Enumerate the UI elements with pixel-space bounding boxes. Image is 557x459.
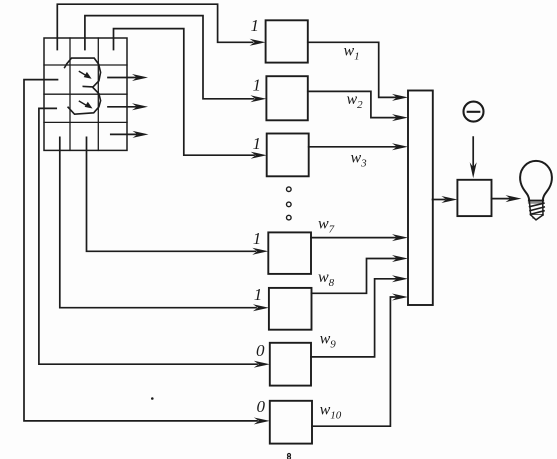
arrow into summer 7 <box>392 294 408 301</box>
wire S4 to summer <box>311 237 396 239</box>
svg-text:w1: w1 <box>344 42 360 62</box>
arrow into lamp <box>506 195 522 202</box>
arrow into summer 3 <box>392 143 408 150</box>
wire from cell A2 to box S2 <box>85 16 254 99</box>
association box S7 <box>270 401 312 444</box>
wire threshold box to lamp <box>492 198 510 200</box>
arrow into summer 4 <box>392 234 408 241</box>
grid right output arrow 3 <box>111 131 149 138</box>
arrow into box S3 <box>251 152 267 159</box>
svg-text:w9: w9 <box>320 331 337 351</box>
association box S1 <box>266 20 308 62</box>
minus sign <box>468 111 480 113</box>
wire from left cell row2 to box S6 (w9) <box>39 108 257 364</box>
grid right output arrow 2 <box>108 103 148 110</box>
arrow into box S2 <box>250 95 266 102</box>
association box S6 <box>270 343 311 386</box>
wire from bottom cell 2 to box S4 (w7) <box>87 137 256 251</box>
wire S6 to summer <box>311 279 396 357</box>
svg-text:1: 1 <box>253 229 261 248</box>
svg-text:w8: w8 <box>318 269 335 289</box>
arrow into box S1 <box>250 39 266 46</box>
summer box <box>408 91 433 306</box>
wire S7 to summer <box>312 297 396 426</box>
svg-text:0: 0 <box>256 341 265 360</box>
svg-text:1: 1 <box>253 134 262 153</box>
figure 3 stimulus on retina <box>65 58 101 114</box>
arrow into box S6 <box>254 361 270 368</box>
arrow into box S7 <box>254 417 270 424</box>
grid right output arrow 1 <box>108 74 148 81</box>
arrow into summer 6 <box>392 275 408 282</box>
svg-text:1: 1 <box>254 285 262 304</box>
association box S4 <box>268 232 311 274</box>
minus bias circle <box>464 102 484 122</box>
svg-text:0: 0 <box>257 397 266 416</box>
grid column line 2 <box>97 38 99 150</box>
wire from left cell row1 to box S7 (w10) <box>24 80 257 421</box>
light arrow 1 <box>79 72 91 79</box>
wire S1 to summer <box>308 42 396 97</box>
lamp bulb glass <box>520 161 552 201</box>
arrow into threshold box <box>441 196 457 203</box>
speck <box>151 397 154 400</box>
svg-text:w2: w2 <box>347 91 364 111</box>
lamp tip <box>531 215 543 220</box>
wire from cell A1 to box S1 <box>57 4 252 49</box>
svg-text:w7: w7 <box>318 216 335 236</box>
svg-text:w10: w10 <box>320 402 342 422</box>
light arrow 2 <box>79 101 92 108</box>
arrow into summer 2 <box>392 114 408 121</box>
grid column line 1 <box>69 38 71 150</box>
lamp screw hatching <box>530 203 545 218</box>
association box S5 <box>269 288 312 330</box>
wire S3 to summer <box>309 146 396 148</box>
association box S2 <box>266 76 307 120</box>
wire summer to threshold box <box>433 199 446 201</box>
wire S2 to summer <box>308 91 396 117</box>
wire from bottom cell 1 to box S5 (w8) <box>60 137 256 307</box>
wire from cell A3 to box S3 <box>114 29 255 156</box>
ellipsis dots below S7 <box>288 454 291 459</box>
svg-text:1: 1 <box>253 76 262 95</box>
retina grid outline <box>44 38 127 150</box>
arrow into box S4 <box>252 248 268 255</box>
lamp screw base <box>529 201 543 215</box>
arrow into summer 1 <box>392 94 408 101</box>
arrow into summer 5 <box>392 255 408 262</box>
svg-text:w3: w3 <box>351 150 368 170</box>
threshold box <box>457 180 491 216</box>
lamp screw base top edge <box>529 200 543 202</box>
arrow into box S5 <box>253 304 269 311</box>
bias arrow down into threshold box <box>470 137 477 178</box>
wire S5 to summer <box>312 259 397 294</box>
svg-text:1: 1 <box>251 16 260 35</box>
ellipsis dots between S3 and S4 <box>287 187 292 220</box>
association box S3 <box>267 134 309 177</box>
grid row line 1 <box>44 64 127 66</box>
grid row line 2 <box>44 93 127 95</box>
lamp screw base shade <box>529 201 543 203</box>
grid row line 3 <box>44 121 127 123</box>
